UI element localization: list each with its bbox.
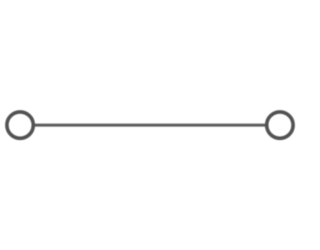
- terminal circle left: [7, 112, 33, 138]
- terminal circle right: [267, 112, 293, 138]
- wire: [31, 124, 269, 127]
